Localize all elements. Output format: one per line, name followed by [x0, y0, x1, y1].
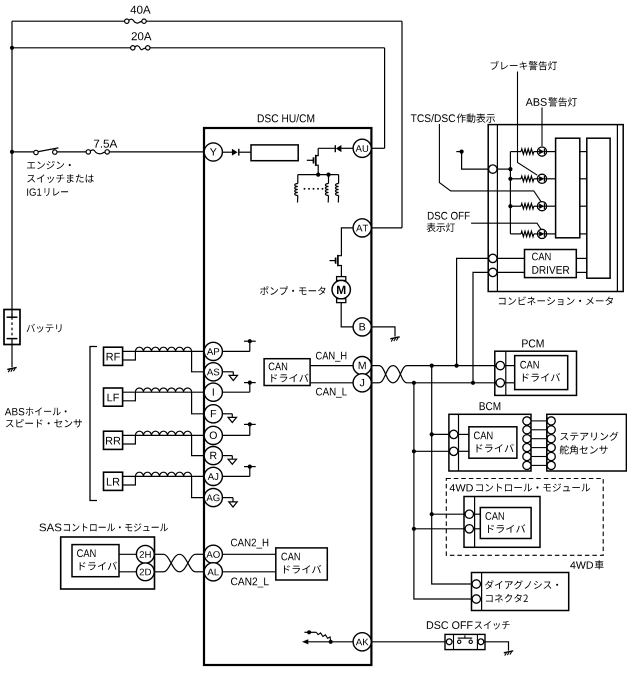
connector meter pin2 [489, 254, 497, 262]
label steering angle sensor [560, 432, 619, 455]
junction bus/20A [10, 46, 14, 50]
ic CAN driver U2 [276, 548, 328, 580]
label pump motor [260, 286, 325, 295]
label CAN_L [316, 388, 347, 398]
junction coil2/rail [326, 173, 330, 177]
junction bus row2 [508, 177, 512, 181]
junction bus/IG1 [10, 150, 14, 154]
wire motor to B [341, 303, 353, 327]
pin 2D [136, 563, 154, 581]
module diagnosis connector box [472, 573, 569, 611]
junction CAN_L/4WD [412, 527, 416, 531]
wire B to ground [371, 327, 395, 337]
ic CAN driver SAS [72, 545, 119, 577]
junction CAN_H/BCM [430, 432, 434, 436]
fuse 7.5A [86, 150, 109, 154]
label ABS warning light [526, 97, 577, 106]
junction CAN_H branch meter [455, 364, 459, 368]
module DSC HU/CM box [204, 128, 371, 665]
wire AO link [222, 553, 275, 555]
junction CAN_H/4WD [430, 512, 434, 516]
connector BCM pin1 [450, 430, 458, 438]
junction bus row3 [508, 204, 512, 208]
transistor Q2 [330, 255, 342, 277]
node I supply stub [222, 381, 255, 393]
switch DSC OFF [445, 634, 485, 649]
sensor RR wheel-speed [104, 431, 205, 455]
ellipsis more coils [304, 188, 324, 190]
connector steering pins [547, 417, 555, 470]
module PCM box [495, 351, 577, 395]
junction CAN_L branch meter [471, 381, 475, 385]
wire PCM links [505, 366, 515, 383]
pin 2H [136, 545, 154, 563]
connector diag pin2 [472, 595, 480, 603]
label 40A [130, 6, 150, 14]
node AS ground [222, 372, 237, 381]
wire 4WD links [414, 514, 480, 529]
connector PCM pin2 [496, 379, 504, 387]
node O supply stub [222, 422, 255, 435]
junction CAN_L/BCM [412, 449, 416, 453]
ic CAN driver BCM [469, 427, 517, 458]
wire CAN_L trunk [407, 382, 496, 384]
module 4WD dashed box [446, 479, 603, 556]
wire lamp rows [510, 149, 555, 237]
wire 40A feed [12, 21, 402, 228]
lamp ABS warning [537, 147, 546, 156]
connector 4WD pin1 [465, 510, 473, 518]
node AK sense [302, 630, 353, 644]
label CAN2_H [231, 539, 268, 549]
node AJ supply stub [222, 465, 255, 477]
pin O [204, 426, 222, 444]
label combination meter [499, 297, 613, 306]
pin J [353, 374, 371, 392]
label CAN_H [316, 352, 346, 362]
module 4WD inner box [464, 497, 540, 548]
pin B [353, 318, 371, 336]
node meter feed stub [456, 150, 488, 170]
label 4WD vehicle [570, 560, 603, 569]
solenoid coil L3 [336, 175, 339, 203]
pin AT [353, 219, 371, 237]
transistor Q1 [307, 148, 318, 174]
label battery [27, 324, 62, 333]
label brake warning light [491, 61, 557, 71]
label 20A [132, 32, 152, 40]
solenoid coil L1 [295, 175, 298, 203]
label BCM [480, 402, 501, 410]
label DSC OFF indicator [427, 212, 470, 232]
wire BCM links [414, 434, 469, 451]
pin AK [353, 633, 371, 651]
twisted pair CAN2 [155, 554, 205, 572]
diode D1 [232, 149, 251, 156]
label 4WD control module [450, 483, 590, 491]
wire Q1 drain rail [318, 147, 335, 149]
ic CAN driver U1 [264, 359, 310, 386]
wire lamp bus [497, 152, 511, 234]
junction bus feed [508, 167, 512, 171]
connector PCM pin1 [496, 361, 504, 369]
pin AP [204, 342, 222, 360]
leader brake lamp [518, 72, 538, 176]
wire SAS links [119, 554, 145, 572]
wire Y to diode [222, 151, 232, 153]
ic meter block B [587, 138, 610, 278]
wire meter CAN1 riser [457, 258, 489, 365]
wire meter CAN2 riser [473, 272, 489, 382]
resistor R1 box [251, 145, 298, 161]
pin R [204, 447, 222, 465]
pin AU [353, 139, 371, 157]
pin AJ [204, 467, 222, 485]
node R ground [222, 456, 236, 465]
battery [4, 310, 20, 345]
pump motor M1 [332, 277, 350, 303]
wire switch to ground [485, 642, 509, 651]
wire A-B links [580, 152, 587, 234]
wire battery positive bus [11, 21, 13, 309]
node F ground [222, 414, 236, 423]
label 7.5A [94, 140, 117, 148]
ground DSC OFF switch [504, 651, 513, 656]
lamp brake warning [537, 174, 546, 183]
node AG ground [222, 498, 237, 507]
pin AO [204, 545, 222, 563]
label DSC OFF switch [427, 621, 510, 630]
lamp DSC OFF indicator [537, 229, 546, 238]
lamp TCS/DSC indicator [537, 202, 546, 211]
junction CAN_L branch down [412, 381, 416, 385]
ic meter CAN DRIVER [525, 250, 577, 278]
junction Q1/rail [316, 173, 320, 177]
pin Y [204, 143, 222, 161]
switch engine-switch [34, 148, 59, 155]
connector meter pin1 [489, 165, 497, 173]
sensor LF wheel-speed [104, 388, 205, 414]
pin F [204, 405, 222, 423]
wire battery to ground [11, 345, 13, 368]
label TCS/DSC indicator [411, 114, 495, 123]
sensor RF wheel-speed [104, 347, 205, 372]
leader ABS lamp [541, 108, 543, 147]
ground B pin [390, 337, 399, 342]
pin AS [204, 363, 222, 381]
wire CAN_H trunk [407, 365, 496, 367]
wire AT to Q2 [341, 228, 353, 256]
pin AL [204, 563, 222, 581]
label PCM [522, 339, 543, 347]
diode D2 [335, 145, 353, 152]
connector BCM pin2 [450, 447, 458, 455]
pin AG [204, 489, 222, 507]
twisted pair CAN bus [379, 366, 407, 383]
wire J out [371, 382, 379, 384]
connector meter pin3 [489, 268, 497, 276]
connector diag pin1 [472, 580, 480, 588]
wire CAN_L to J [310, 382, 354, 384]
leader DSC OFF lamp [471, 223, 541, 229]
label DSC HU/CM [258, 114, 314, 122]
solenoid coil L2 [325, 175, 328, 203]
label engine switch or IG1 relay [27, 161, 94, 196]
node AP supply stub [222, 339, 255, 351]
connector 4WD pin2 [465, 525, 473, 533]
fuse 20A [131, 46, 150, 50]
wire CAN_L drop [414, 383, 472, 599]
ic CAN driver 4WD [480, 508, 531, 539]
wire M out [371, 365, 379, 367]
wire IG1 row [12, 151, 204, 153]
module BCM box [449, 414, 531, 471]
module steering angle sensor box [547, 414, 627, 471]
label CAN2_L [231, 578, 269, 588]
ic meter block A [556, 138, 580, 238]
label ABS wheel-speed sensor [5, 407, 82, 427]
bracket sensor group [90, 347, 97, 501]
wire 20A feed [12, 48, 385, 149]
fuse 40A [125, 19, 147, 23]
junction CAN_H branch down [430, 364, 434, 368]
module combination meter box [488, 125, 623, 292]
wire BCM-steering links [531, 421, 547, 466]
wire meter CAN links [497, 258, 587, 272]
sensor LR wheel-speed [104, 472, 205, 497]
label diagnosis connector 2 [485, 580, 558, 602]
leader TCS lamp [439, 124, 541, 202]
pin I [204, 383, 222, 401]
connector BCM right pins [523, 417, 531, 470]
module SAS box [61, 537, 155, 589]
wire CAN_H to M [310, 365, 354, 367]
ic CAN driver PCM [515, 356, 568, 390]
wire CAN_H drop [432, 366, 472, 584]
wire AK to switch [371, 641, 445, 643]
wire AL link [222, 571, 275, 573]
label SAS control module [39, 523, 168, 531]
ground battery [7, 367, 16, 372]
pin M [353, 357, 371, 375]
wire valve rail [298, 174, 339, 176]
